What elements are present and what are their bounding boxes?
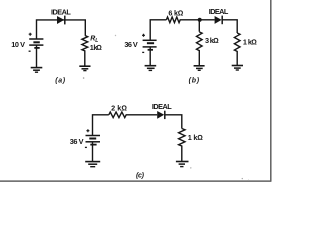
svg-text:1 kΩ: 1 kΩ xyxy=(188,133,203,142)
svg-text:3 kΩ: 3 kΩ xyxy=(205,36,219,45)
svg-text:(a): (a) xyxy=(55,77,65,84)
svg-text:6 kΩ: 6 kΩ xyxy=(168,9,183,18)
svg-text:36 V: 36 V xyxy=(124,40,138,49)
svg-text:(c): (c) xyxy=(136,172,145,179)
svg-text:2 kΩ: 2 kΩ xyxy=(111,103,127,112)
svg-text:IDEAL: IDEAL xyxy=(152,102,172,111)
svg-text:1 kΩ: 1 kΩ xyxy=(243,38,257,47)
svg-text:36 V: 36 V xyxy=(70,137,84,146)
svg-text:IDEAL: IDEAL xyxy=(51,7,71,16)
svg-text:(b): (b) xyxy=(189,78,200,85)
svg-text:IDEAL: IDEAL xyxy=(209,7,229,16)
svg-text:10 V: 10 V xyxy=(11,40,25,49)
svg-text:1 kΩ: 1 kΩ xyxy=(90,43,102,52)
